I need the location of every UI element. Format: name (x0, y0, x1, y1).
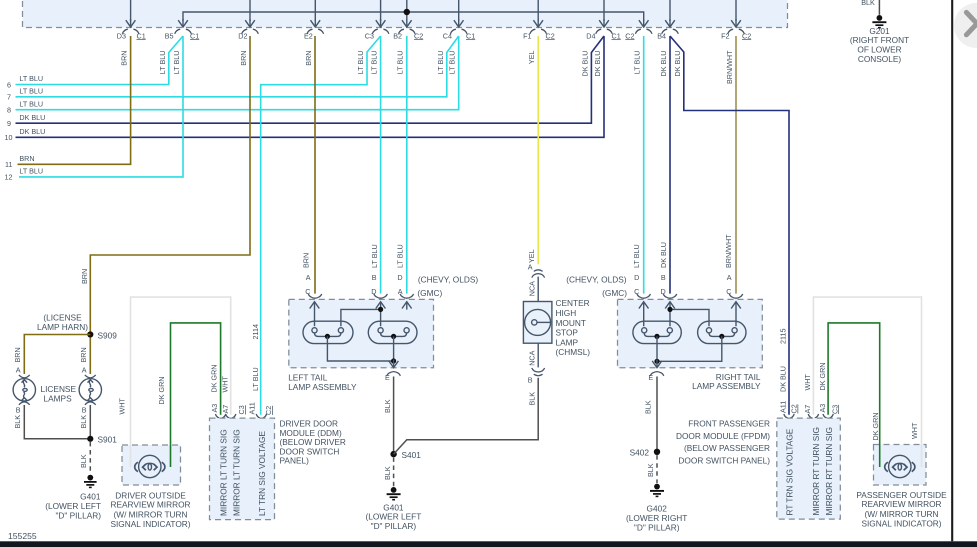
svg-text:A: A (528, 263, 533, 272)
connector hooks B4 (662, 29, 679, 34)
svg-text:D: D (397, 273, 402, 282)
wire feed D4 (603, 0, 605, 21)
svg-text:DOOR SWITCH PANEL): DOOR SWITCH PANEL) (678, 456, 770, 466)
svg-text:LT BLU: LT BLU (396, 244, 405, 268)
DDM pin hooks A3 (215, 414, 225, 418)
wire WHT FPDM A7 to passenger mirror (813, 297, 921, 467)
right tail bulb 1 (633, 321, 681, 343)
svg-text:REARVIEW MIRROR: REARVIEW MIRROR (110, 500, 190, 510)
svg-text:LT BLU: LT BLU (436, 51, 445, 75)
svg-text:DK GRN: DK GRN (210, 365, 219, 393)
wire BLK left lamp to S901 (24, 405, 90, 439)
svg-text:BLK: BLK (79, 415, 88, 429)
svg-text:MIRROR RT TURN SIG: MIRROR RT TURN SIG (811, 427, 821, 516)
wire feed B4 (669, 0, 671, 21)
wire DK BLU row 9 to D4 branch (16, 36, 605, 123)
wire DK GRN FPDM A3 to passenger mirror (828, 323, 880, 467)
driver outside mirror box (122, 445, 181, 485)
svg-text:8: 8 (7, 106, 11, 115)
arrow up pin A (402, 302, 412, 310)
svg-text:BRN: BRN (79, 347, 88, 362)
svg-text:6: 6 (7, 80, 11, 89)
svg-text:DK BLU: DK BLU (19, 113, 45, 122)
wire feed C4 (458, 0, 460, 21)
connector hooks C2 (635, 29, 652, 34)
splice S401 (390, 451, 396, 457)
svg-text:12: 12 (5, 173, 13, 182)
svg-text:BLK: BLK (527, 392, 536, 406)
svg-text:BLK: BLK (79, 454, 88, 468)
svg-text:DOOR MODULE (FPDM): DOOR MODULE (FPDM) (676, 431, 770, 441)
svg-text:F2: F2 (721, 31, 729, 40)
svg-text:BRN: BRN (119, 51, 128, 66)
svg-text:2114: 2114 (251, 324, 260, 339)
svg-text:BRN: BRN (239, 51, 248, 66)
arrow into D4 (599, 19, 609, 27)
left license lamp bulb (13, 379, 35, 401)
arrow into D3 (126, 19, 136, 27)
bulb2 output junction (719, 334, 724, 339)
svg-text:C2: C2 (625, 31, 634, 40)
svg-text:RT TRN SIG VOLTAGE: RT TRN SIG VOLTAGE (784, 428, 794, 515)
svg-text:FRONT PASSENGER: FRONT PASSENGER (688, 418, 770, 428)
svg-text:BLK: BLK (383, 466, 392, 480)
wire YEL F1 to CHMSL (537, 36, 539, 264)
svg-text:LT BLU: LT BLU (19, 167, 43, 176)
wire feed D3 (130, 0, 132, 21)
svg-text:LT BLU: LT BLU (356, 51, 365, 75)
svg-text:LT BLU: LT BLU (19, 74, 43, 83)
svg-text:DK BLU: DK BLU (581, 51, 590, 77)
arrow into F2 (731, 19, 741, 27)
right tail bulb 2 (698, 321, 746, 343)
connector hooks B5 (175, 29, 192, 34)
wire LT BLU row 6 to B5 branch (16, 36, 184, 85)
connector hooks D4 (596, 29, 613, 34)
wire BLK to G201 (878, 0, 880, 15)
wire BRN S909 to left license lamp (24, 335, 90, 375)
svg-text:E: E (648, 373, 653, 382)
svg-text:BRN: BRN (13, 347, 22, 362)
svg-text:DK GRN: DK GRN (818, 363, 827, 391)
svg-text:C3: C3 (365, 31, 374, 40)
svg-text:DK GRN: DK GRN (157, 377, 166, 405)
socket hooks left tail pin A (400, 294, 414, 298)
svg-text:LT BLU: LT BLU (369, 51, 378, 75)
svg-text:STOP: STOP (556, 328, 579, 338)
wire BLK right lamp to S901 (89, 405, 91, 439)
wire BLK CHMSL to S401 (394, 378, 539, 454)
right license lamp bulb (79, 379, 101, 401)
junction at B2 on bus (404, 9, 410, 15)
svg-text:A: A (727, 273, 732, 282)
arrow up right pin D (665, 302, 675, 310)
svg-text:MIRROR LT TURN SIG: MIRROR LT TURN SIG (219, 429, 229, 516)
svg-text:E2: E2 (304, 31, 313, 40)
svg-text:A: A (306, 273, 311, 282)
bottom toolbar (0, 541, 977, 547)
wire DK GRN driver mirror to DDM A3 (171, 323, 221, 467)
inline connector at CHMSL bottom (532, 368, 545, 376)
svg-text:BLK: BLK (383, 399, 392, 413)
socket hooks exit E (387, 372, 401, 376)
connector hooks C3 (372, 29, 389, 34)
wire BRN row 11 to D3 (18, 36, 131, 164)
internal wire pin D to bulb1/bulb2 (670, 309, 709, 326)
svg-text:WHT: WHT (910, 422, 919, 439)
svg-text:A7: A7 (803, 405, 812, 414)
wire feed F1 (537, 0, 539, 21)
svg-text:D3: D3 (117, 31, 126, 40)
svg-text:BLK: BLK (644, 400, 653, 414)
wire BRN from D2 to S909 (90, 36, 250, 335)
connector hooks B2 (399, 29, 416, 34)
svg-text:C1: C1 (190, 31, 199, 40)
lead NCA into CHMSL (537, 277, 539, 302)
svg-text:BRN: BRN (304, 51, 313, 66)
svg-text:BLK: BLK (861, 0, 875, 7)
left tail bulb 2 (368, 321, 417, 343)
svg-text:LT BLU: LT BLU (632, 244, 641, 268)
svg-text:A7: A7 (221, 405, 230, 414)
lead NCA out of CHMSL (537, 343, 539, 367)
svg-text:A: A (16, 366, 21, 375)
wire BRN S909 to right license lamp (89, 338, 91, 374)
svg-text:D: D (634, 273, 639, 282)
socket hooks right tail pin C (637, 294, 651, 298)
svg-text:LT BLU: LT BLU (633, 51, 642, 75)
svg-text:(BELOW PASSENGER: (BELOW PASSENGER (684, 443, 770, 453)
svg-text:BRN: BRN (19, 154, 34, 163)
svg-text:(CHMSL): (CHMSL) (556, 347, 591, 357)
svg-text:B4: B4 (657, 31, 666, 40)
right lamp top socket (85, 375, 96, 378)
arrow up pin D (376, 302, 386, 310)
wire feed E2 (314, 0, 316, 21)
svg-text:CONSOLE): CONSOLE) (858, 54, 902, 64)
svg-text:B: B (528, 375, 533, 384)
svg-text:LAMP: LAMP (556, 337, 579, 347)
svg-text:BRN/WHT: BRN/WHT (725, 50, 734, 84)
svg-text:A11: A11 (779, 401, 788, 413)
arrow into B4 (665, 19, 675, 27)
close button X (966, 12, 977, 34)
svg-text:LAMP ASSEMBLY: LAMP ASSEMBLY (692, 381, 761, 391)
splice S402 (654, 449, 660, 455)
internal ground bus (327, 336, 393, 361)
svg-text:A11: A11 (247, 402, 256, 414)
svg-text:"D" PILLAR): "D" PILLAR) (55, 511, 101, 521)
junction at exit (391, 358, 396, 363)
svg-text:(GMC): (GMC) (417, 288, 442, 298)
svg-text:BRN/WHT: BRN/WHT (724, 234, 733, 268)
front passenger door module FPDM box (777, 418, 841, 519)
passenger mirror symbol (885, 455, 915, 477)
svg-text:(CHEVY, OLDS): (CHEVY, OLDS) (566, 275, 626, 285)
top module box (dashed, cut off at top) (23, 0, 788, 28)
wire WHT driver mirror to DDM A7 (131, 297, 231, 467)
svg-text:BRN: BRN (80, 269, 89, 284)
wire DK BLU B4 to right tail lamp pin D (669, 36, 671, 294)
svg-text:CENTER: CENTER (556, 298, 590, 308)
wire feed C3 (380, 0, 382, 21)
svg-text:"D" PILLAR): "D" PILLAR) (634, 522, 680, 532)
ground G402 (650, 484, 664, 497)
svg-text:S401: S401 (402, 450, 422, 460)
svg-text:LT TRN SIG VOLTAGE: LT TRN SIG VOLTAGE (257, 431, 267, 516)
svg-text:C2: C2 (414, 31, 423, 40)
svg-text:LT BLU: LT BLU (448, 51, 457, 75)
svg-text:B: B (82, 406, 87, 415)
svg-text:E: E (385, 373, 390, 382)
svg-text:B: B (372, 273, 377, 282)
arrow down exit E (389, 360, 399, 368)
svg-text:(CHEVY, OLDS): (CHEVY, OLDS) (418, 275, 478, 285)
connector hooks C4 (450, 29, 467, 34)
connector hooks E2 (307, 29, 324, 34)
svg-text:DK BLU: DK BLU (19, 127, 45, 136)
wire feed B2 (406, 0, 408, 21)
socket hooks right tail pin D (663, 294, 677, 298)
ground G401 (license lamps) (84, 475, 97, 488)
DDM pin hooks A7 (226, 414, 236, 418)
ground G201 (872, 15, 886, 28)
arrow into D2 (245, 19, 255, 27)
arrow into F1 (533, 19, 543, 27)
svg-text:S402: S402 (630, 448, 650, 458)
svg-text:F1: F1 (523, 31, 531, 40)
svg-text:7: 7 (7, 93, 11, 102)
svg-text:DK BLU: DK BLU (659, 242, 668, 268)
wire LT BLU C3 to left tail lamp pin D (380, 36, 382, 294)
svg-text:B5: B5 (165, 31, 174, 40)
arrow into C3 (376, 19, 386, 27)
svg-text:C2: C2 (264, 406, 273, 415)
wire LT BLU B2 to left tail lamp pin A (406, 36, 408, 294)
arrow into C2 (639, 19, 649, 27)
svg-text:11: 11 (5, 160, 12, 169)
arrow into E2 (311, 19, 321, 27)
svg-text:DK BLU: DK BLU (659, 51, 668, 77)
wire BLK dashed S901 to G401 (89, 442, 91, 474)
svg-text:G401: G401 (80, 492, 101, 502)
svg-text:BRN: BRN (302, 253, 311, 268)
arrow down exit E right (652, 360, 662, 368)
svg-text:LT BLU: LT BLU (251, 367, 260, 391)
bulb1 output junction (654, 334, 659, 339)
FPDM pin hooks A11 (784, 414, 794, 418)
svg-text:DK BLU: DK BLU (673, 51, 682, 77)
connector hooks F1 (530, 29, 547, 34)
svg-text:C2: C2 (546, 31, 555, 40)
svg-text:DK GRN: DK GRN (871, 413, 880, 441)
svg-text:A3: A3 (818, 404, 827, 413)
svg-text:WHT: WHT (117, 398, 126, 415)
svg-text:HIGH: HIGH (556, 308, 577, 318)
CHMSL housing box (523, 302, 552, 344)
svg-text:REARVIEW MIRROR: REARVIEW MIRROR (861, 499, 941, 509)
svg-text:LT BLU: LT BLU (172, 51, 181, 75)
DDM pin hooks A11 (256, 414, 266, 418)
svg-text:BLK: BLK (646, 463, 655, 477)
svg-text:D2: D2 (238, 31, 247, 40)
driver mirror symbol (135, 455, 165, 477)
svg-text:YEL: YEL (527, 51, 536, 65)
svg-text:C1: C1 (466, 31, 475, 40)
arrow up pin C (310, 302, 320, 310)
right pane divider (951, 0, 953, 541)
svg-text:LICENSE: LICENSE (41, 384, 77, 394)
driver door module DDM box (210, 418, 275, 519)
internal wire pin D to bulb1/bulb2 (341, 309, 381, 326)
svg-text:B: B (16, 406, 21, 415)
FPDM pin hooks A7 (808, 414, 818, 418)
arrow into B2 (402, 19, 412, 27)
svg-text:NCA: NCA (527, 350, 536, 365)
close button circle (954, 3, 977, 48)
svg-text:B2: B2 (393, 31, 402, 40)
internal wire pin A to bulb2 (735, 309, 737, 326)
internal wire pin C to bulb1 (643, 309, 645, 326)
svg-text:BLK: BLK (13, 415, 22, 429)
socket hooks left tail pin C (308, 294, 322, 298)
svg-text:C1: C1 (612, 31, 621, 40)
svg-text:(LOWER LEFT: (LOWER LEFT (45, 501, 101, 511)
svg-text:(GMC): (GMC) (602, 288, 627, 298)
svg-text:LT BLU: LT BLU (158, 51, 167, 75)
left lamp top socket (19, 375, 30, 378)
svg-text:S909: S909 (98, 330, 118, 340)
svg-text:LAMP ASSEMBLY: LAMP ASSEMBLY (288, 382, 357, 392)
svg-text:9: 9 (7, 119, 11, 128)
right tail lamp assembly box (618, 299, 763, 367)
FPDM pin hooks A3 (823, 414, 833, 418)
arrow into C4 (454, 19, 464, 27)
junction at pin D (378, 307, 383, 312)
svg-text:LT BLU: LT BLU (19, 87, 43, 96)
bulb1 output junction (325, 334, 330, 339)
left tail bulb 1 (303, 321, 353, 343)
junction at right exit (654, 359, 659, 364)
svg-text:LAMPS: LAMPS (44, 393, 73, 403)
CHMSL bulb (525, 309, 551, 335)
internal ground bus right (657, 336, 722, 361)
arrow into B5 (178, 19, 188, 27)
svg-text:WHT: WHT (220, 376, 229, 393)
svg-text:C1: C1 (137, 31, 146, 40)
svg-text:A: A (82, 366, 87, 375)
wire BLK dashed S401 to G401 (393, 457, 395, 486)
wire distribution bus to B5 and C2 (183, 12, 644, 21)
wire LT BLU row 7 to C4 branch (16, 36, 459, 97)
wire DK BLU row 10 to D4 main (16, 36, 605, 137)
splice S909 (87, 331, 93, 337)
svg-text:B: B (661, 273, 666, 282)
left tail lamp assembly box (289, 299, 434, 367)
wire BRN/WHT F2 to right tail lamp pin C (735, 36, 737, 294)
socket hooks exit E right (650, 372, 664, 376)
arrow up right pin C (639, 302, 649, 310)
svg-text:C3: C3 (830, 405, 839, 414)
wire BRN E2 to left tail lamp pin C (314, 36, 316, 294)
junction at right pin D (667, 307, 672, 312)
svg-text:MOUNT: MOUNT (556, 318, 586, 328)
svg-text:LT BLU: LT BLU (370, 244, 379, 268)
internal wire pin C to bulb1 (314, 309, 316, 326)
socket hooks right tail pin C2 (729, 294, 743, 298)
splice S901 (87, 436, 93, 442)
svg-text:LT BLU: LT BLU (19, 99, 43, 108)
wire feed D2 (249, 0, 251, 21)
svg-text:DK BLU: DK BLU (593, 51, 602, 77)
connector hooks F2 (728, 29, 745, 34)
wire BLK left tail to S401 (393, 377, 395, 455)
inline connector at CHMSL top (532, 270, 545, 278)
wire DK BLU B4 branch to FPDM A11 (circuit 2115) (670, 36, 789, 415)
svg-text:MIRROR LT TURN SIG: MIRROR LT TURN SIG (231, 429, 241, 516)
svg-text:C2: C2 (790, 404, 799, 413)
svg-text:C3: C3 (237, 405, 246, 414)
svg-text:SIGNAL INDICATOR): SIGNAL INDICATOR) (861, 519, 941, 529)
passenger outside mirror box (874, 445, 927, 486)
svg-text:DK BLU: DK BLU (779, 366, 788, 392)
wire BLK dashed S402 to G402 (656, 455, 658, 483)
svg-text:LT BLU: LT BLU (396, 51, 405, 75)
svg-text:LAMP HARN): LAMP HARN) (37, 322, 88, 332)
svg-text:C2: C2 (742, 31, 751, 40)
wire BLK right tail to S402 (656, 377, 658, 452)
svg-text:YEL: YEL (527, 249, 536, 263)
ground G401 (left tail) (387, 487, 401, 500)
svg-text:PANEL): PANEL) (280, 456, 310, 466)
connector hooks D3 (122, 29, 139, 34)
wire LT BLU C3 branch to DDM A11 (circuit 2114) (261, 36, 381, 415)
left lamp bottom socket (19, 402, 30, 405)
svg-text:"D" PILLAR): "D" PILLAR) (371, 521, 417, 531)
socket hooks left tail pin D (374, 294, 388, 298)
svg-text:C4: C4 (443, 31, 452, 40)
wire LT BLU row 8 to C4 main (16, 36, 459, 110)
svg-text:155255: 155255 (8, 531, 37, 541)
wire LT BLU row 12 to B5 main (19, 36, 183, 177)
svg-text:SIGNAL INDICATOR): SIGNAL INDICATOR) (110, 519, 190, 529)
right lamp bottom socket (85, 402, 96, 405)
svg-text:A3: A3 (210, 404, 219, 413)
bulb2 output junction (391, 334, 396, 339)
svg-text:S901: S901 (98, 435, 118, 445)
svg-text:MIRROR RT TURN SIG: MIRROR RT TURN SIG (824, 427, 834, 516)
connector hooks D2 (242, 29, 259, 34)
svg-text:WHT: WHT (803, 374, 812, 391)
arrow up right pin A (731, 302, 741, 310)
svg-text:NCA: NCA (527, 281, 536, 296)
svg-text:10: 10 (5, 133, 13, 142)
wire feed F2 (735, 0, 737, 21)
svg-text:(LICENSE: (LICENSE (43, 312, 82, 322)
wire LT BLU C2 to right tail lamp pin C (643, 36, 645, 294)
svg-text:2115: 2115 (779, 329, 788, 344)
svg-text:D4: D4 (586, 31, 595, 40)
